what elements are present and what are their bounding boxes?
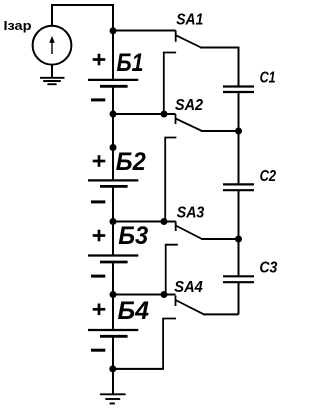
svg-text:Б2: Б2 [116,148,146,176]
svg-text:C1: C1 [260,70,276,87]
svg-text:SA3: SA3 [177,205,205,222]
svg-text:Б3: Б3 [118,222,148,250]
svg-text:SA4: SA4 [174,279,203,296]
svg-text:Б1: Б1 [117,49,144,77]
svg-text:C3: C3 [259,260,277,277]
svg-text:SA1: SA1 [176,12,203,29]
svg-text:C2: C2 [260,168,277,185]
svg-text:SA2: SA2 [175,97,203,114]
svg-text:Б4: Б4 [118,297,150,325]
svg-text:Iзар: Iзар [4,18,32,33]
